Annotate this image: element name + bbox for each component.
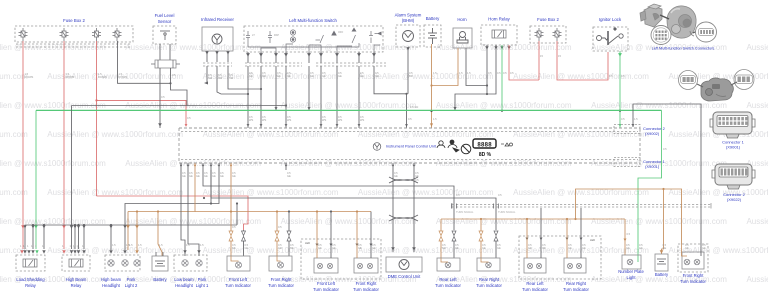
svg-text:0.5: 0.5 bbox=[456, 193, 460, 197]
low beam headlight and park light 1 bbox=[174, 255, 207, 271]
svg-text:Front Right: Front Right bbox=[271, 277, 293, 282]
svg-text:SW: SW bbox=[229, 76, 234, 80]
svg-text:GE: GE bbox=[528, 246, 532, 250]
wire park light 2 feeds (tan) bbox=[127, 212, 129, 251]
svg-text:GE: GE bbox=[189, 174, 193, 178]
svg-text:Battery: Battery bbox=[426, 16, 440, 21]
DME control unit bbox=[386, 257, 422, 272]
svg-text:GE: GE bbox=[455, 246, 459, 250]
svg-text:1.5: 1.5 bbox=[459, 71, 463, 75]
wire rear right turn ground bullet bbox=[494, 231, 498, 241]
wire IPC pin junction on park bus bbox=[210, 170, 212, 204]
rear LED turn indicators box bbox=[519, 236, 601, 279]
instrument panel control unit connector rows bbox=[181, 131, 638, 133]
svg-text:DME Control Unit: DME Control Unit bbox=[388, 274, 421, 279]
wire horn relay 86 (gray) bbox=[486, 45, 488, 94]
svg-text:8888: 8888 bbox=[477, 142, 492, 149]
icon turn indicators bbox=[437, 140, 459, 152]
svg-text:Turn Indicator: Turn Indicator bbox=[435, 283, 461, 288]
svg-text:GE: GE bbox=[482, 246, 486, 250]
wire battery to IPC (tan) bbox=[431, 44, 433, 128]
svg-text:1.5: 1.5 bbox=[433, 71, 437, 75]
svg-text:Left Multi-function Switch Con: Left Multi-function Switch Connectors bbox=[652, 47, 715, 51]
wire park light 1 feed bbox=[188, 170, 199, 256]
wire green trunk right branch to number plate light bbox=[638, 110, 662, 262]
svg-text:Turn Indicator: Turn Indicator bbox=[563, 287, 589, 292]
svg-text:GE: GE bbox=[626, 246, 630, 250]
svg-text:GE: GE bbox=[568, 246, 572, 250]
wire front left turn feed (tan) bbox=[230, 170, 232, 231]
connector 1 (X9001) illustration bbox=[710, 112, 755, 138]
svg-text:Park: Park bbox=[127, 277, 137, 282]
svg-text:1.5: 1.5 bbox=[634, 117, 638, 121]
svg-text:WS: WS bbox=[338, 118, 342, 122]
svg-text:GE: GE bbox=[249, 74, 253, 78]
svg-text:GE: GE bbox=[182, 174, 186, 178]
wire horn relay 30 to fuse (red) bbox=[509, 45, 539, 80]
wire horn relay 87 (green) bbox=[501, 45, 503, 110]
body connector dashed line bbox=[452, 204, 711, 206]
svg-text:Ignitor Lock: Ignitor Lock bbox=[599, 17, 622, 22]
svg-text:GE: GE bbox=[372, 246, 376, 250]
wire fuel level sensor ground bbox=[171, 68, 188, 106]
svg-text:1.5: 1.5 bbox=[186, 243, 190, 247]
wire ignition lock output (green) bbox=[619, 51, 621, 128]
svg-text:0.5: 0.5 bbox=[627, 232, 631, 236]
svg-text:GE: GE bbox=[332, 246, 336, 250]
wire fuse2 to high beam relay (red) bbox=[63, 41, 65, 249]
wire infrared receiver pin 2 bbox=[217, 66, 248, 94]
wire IPC connector 2 gray to right trunk bbox=[633, 104, 701, 244]
icon slash circle bbox=[461, 144, 471, 154]
wire IPC to rear left turn (gray) bbox=[203, 170, 454, 230]
connector 2 (X9002) of IPC bbox=[614, 125, 640, 134]
wire rear left turn ground bullet bbox=[452, 231, 456, 241]
svg-text:WS: WS bbox=[322, 118, 326, 122]
svg-text:GE: GE bbox=[290, 246, 294, 250]
svg-text:(X9022): (X9022) bbox=[727, 197, 742, 202]
svg-text:1.5: 1.5 bbox=[129, 243, 133, 247]
round connector view A bbox=[651, 26, 671, 45]
svg-text:BR: BR bbox=[409, 74, 413, 78]
svg-text:PAP: PAP bbox=[274, 33, 279, 37]
svg-text:GE: GE bbox=[232, 174, 236, 178]
rear LED right module bbox=[564, 258, 586, 273]
svg-text:Turn Indicator: Turn Indicator bbox=[268, 283, 294, 288]
svg-text:GE: GE bbox=[639, 246, 643, 250]
svg-text:Horn: Horn bbox=[457, 17, 467, 22]
green trunk wire bbox=[36, 109, 662, 111]
wire branch load shedding relay pin 4 bbox=[43, 225, 45, 249]
svg-text:0.5: 0.5 bbox=[503, 71, 507, 75]
svg-text:1.5: 1.5 bbox=[433, 117, 437, 121]
wire IPC to park light bus (gray) bbox=[125, 170, 219, 250]
wire fuel level sensor signal to IPC bbox=[159, 68, 161, 128]
svg-text:0.5: 0.5 bbox=[621, 117, 625, 121]
svg-text:Turn Indicator: Turn Indicator bbox=[522, 287, 548, 292]
left multi-function switch pins bbox=[246, 53, 250, 57]
svg-text:Left Multi-function Switch: Left Multi-function Switch bbox=[289, 18, 337, 23]
svg-text:Infrared Receiver: Infrared Receiver bbox=[201, 17, 235, 22]
svg-text:TURN SIGNAL: TURN SIGNAL bbox=[456, 210, 474, 214]
instrument panel control unit box bbox=[179, 128, 640, 163]
number plate light bbox=[622, 255, 641, 269]
wire fuse to horn relay (red) bbox=[538, 41, 540, 80]
svg-text:Front Right: Front Right bbox=[683, 273, 705, 278]
wire horn relay 85 (gray) bbox=[455, 45, 496, 110]
wires front LED turn feeds junctions bbox=[316, 210, 318, 212]
svg-text:RO/WS: RO/WS bbox=[119, 75, 128, 79]
wire to battery 3 (tan) bbox=[662, 189, 664, 254]
svg-text:LT: LT bbox=[252, 33, 255, 37]
wire to number plate light (tan) bbox=[624, 219, 626, 255]
svg-text:0.5: 0.5 bbox=[498, 193, 502, 197]
svg-text:0.5: 0.5 bbox=[497, 71, 501, 75]
svg-text:RO/WS: RO/WS bbox=[98, 75, 107, 79]
svg-text:0.5: 0.5 bbox=[621, 74, 625, 78]
left multi-function switch internal bus bbox=[248, 43, 359, 47]
wires IPC to DME control unit (twisted pair) bbox=[392, 170, 394, 252]
fuse box 2 (left) bbox=[15, 26, 133, 42]
twisted pair symbol lower bbox=[389, 215, 418, 221]
svg-text:GE: GE bbox=[204, 174, 208, 178]
orange trunk rear (tan) bbox=[441, 218, 625, 220]
svg-text:8D %: 8D % bbox=[479, 152, 492, 158]
instrument panel control unit logo bbox=[373, 143, 381, 151]
svg-text:GE: GE bbox=[310, 74, 314, 78]
ignition lock connectors illustration bbox=[679, 70, 755, 102]
svg-text:GE: GE bbox=[220, 174, 224, 178]
svg-text:0.5: 0.5 bbox=[488, 71, 492, 75]
svg-text:0.5 GN: 0.5 GN bbox=[410, 105, 418, 109]
high beam headlight and park light 2 bbox=[105, 255, 140, 271]
svg-text:LED: LED bbox=[590, 238, 595, 242]
wire IPC to rear right turn (gray) bbox=[211, 170, 496, 230]
svg-text:Headlight: Headlight bbox=[102, 283, 121, 288]
svg-text:Alarm System: Alarm System bbox=[395, 13, 422, 18]
svg-text:GE: GE bbox=[318, 246, 322, 250]
svg-text:Front Right: Front Right bbox=[356, 281, 378, 286]
svg-text:Park: Park bbox=[198, 277, 208, 282]
twisted pair symbol upper bbox=[389, 177, 418, 183]
svg-text:GE: GE bbox=[702, 246, 706, 250]
wire fuse4 to fuel level sensor connector (gray) bbox=[118, 41, 171, 83]
svg-text:GE: GE bbox=[277, 74, 281, 78]
svg-text:OFF: OFF bbox=[338, 30, 344, 34]
svg-text:SW: SW bbox=[208, 76, 213, 80]
svg-text:RO/WS: RO/WS bbox=[66, 75, 75, 79]
svg-text:Rear Left: Rear Left bbox=[439, 277, 457, 282]
svg-text:GE: GE bbox=[322, 74, 326, 78]
wire branch high beam relay 3 bbox=[83, 225, 85, 249]
svg-text:GE: GE bbox=[394, 174, 398, 178]
svg-text:0.5: 0.5 bbox=[187, 116, 191, 120]
icon LCD display bbox=[473, 139, 496, 148]
svg-text:0.5: 0.5 bbox=[161, 95, 165, 99]
battery 2 bbox=[152, 256, 168, 271]
wire branch high beam relay 2 bbox=[78, 225, 80, 249]
wire fuel level sensor pin 2 bbox=[169, 44, 171, 60]
svg-text:0.5: 0.5 bbox=[408, 117, 412, 121]
svg-text:Battery: Battery bbox=[153, 277, 167, 282]
svg-text:Fuse Box 2: Fuse Box 2 bbox=[63, 18, 85, 23]
svg-text:GE: GE bbox=[278, 246, 282, 250]
svg-text:GE: GE bbox=[542, 246, 546, 250]
svg-text:1.5: 1.5 bbox=[112, 243, 116, 247]
svg-text:Turn Indicator: Turn Indicator bbox=[476, 283, 502, 288]
svg-text:0.5: 0.5 bbox=[609, 74, 613, 78]
wire horn feed (tan) bbox=[432, 48, 459, 86]
infrared receiver pins bbox=[205, 51, 208, 54]
svg-text:GE: GE bbox=[196, 174, 200, 178]
svg-text:GE: GE bbox=[232, 246, 236, 250]
svg-text:Number Plate: Number Plate bbox=[618, 269, 644, 274]
rear right turn indicator bbox=[477, 258, 500, 271]
svg-text:0.5: 0.5 bbox=[232, 225, 236, 229]
svg-text:GE: GE bbox=[442, 246, 446, 250]
wire red branch to instrument panel control unit bbox=[97, 100, 187, 125]
wire front right turn feed (tan) bbox=[276, 212, 278, 232]
svg-text:WS: WS bbox=[249, 118, 253, 122]
svg-text:Headlight: Headlight bbox=[175, 283, 194, 288]
wire fuse3 (red) with branch bbox=[96, 41, 98, 196]
wire branch load shedding relay pin 3 bbox=[32, 225, 34, 249]
svg-text:GE: GE bbox=[685, 246, 689, 250]
svg-text:Battery: Battery bbox=[655, 272, 669, 277]
svg-text:Load Shedding: Load Shedding bbox=[16, 277, 45, 282]
orange riser to rear trunk bbox=[576, 189, 682, 244]
svg-text:TURN SIGNAL: TURN SIGNAL bbox=[498, 210, 516, 214]
wire rear left turn feed (tan) bbox=[440, 219, 442, 231]
round connector view B bbox=[696, 22, 717, 42]
svg-text:Horn Relay: Horn Relay bbox=[488, 17, 510, 22]
svg-text:Light 2: Light 2 bbox=[125, 283, 138, 288]
svg-text:AussieAlien @ www.s1000rforum.: AussieAlien @ www.s1000rforum.com Aussie… bbox=[0, 72, 768, 81]
svg-text:(X9002): (X9002) bbox=[645, 131, 660, 136]
front LED left module bbox=[314, 258, 338, 273]
svg-text:Relay: Relay bbox=[25, 283, 37, 288]
wire fuse1 to load shedding relay (red) bbox=[22, 41, 24, 249]
wire infrared receiver pin 1 bbox=[206, 66, 208, 83]
riser between buses bbox=[236, 204, 238, 226]
battery 3 bbox=[655, 254, 668, 271]
front left turn indicator bbox=[227, 256, 250, 271]
wire front left turn ground bbox=[243, 230, 245, 231]
wire branch high beam relay bbox=[74, 225, 76, 249]
svg-text:Rear Right: Rear Right bbox=[479, 277, 500, 282]
svg-text:1.5: 1.5 bbox=[138, 243, 142, 247]
svg-text:GE: GE bbox=[582, 246, 586, 250]
svg-text:1.5: 1.5 bbox=[200, 243, 204, 247]
svg-text:GE: GE bbox=[338, 74, 342, 78]
front LED right module bbox=[354, 258, 378, 273]
svg-text:Fuse Box 2: Fuse Box 2 bbox=[537, 17, 559, 22]
wire infrared receiver pin 3 bbox=[228, 66, 261, 89]
svg-text:Light 1: Light 1 bbox=[196, 283, 209, 288]
wire battery 2 feed (tan) bbox=[158, 212, 162, 257]
wire red fuse3 to front left turn indicator bbox=[97, 196, 249, 230]
wire front right turn ground bbox=[288, 212, 290, 232]
svg-text:Front Left: Front Left bbox=[229, 277, 248, 282]
svg-text:Turn Indicator: Turn Indicator bbox=[353, 287, 379, 292]
svg-text:AussieAlien @ www.s1000rforum.: AussieAlien @ www.s1000rforum.com Aussie… bbox=[0, 246, 768, 255]
wire LMFS pin to alarm junction bbox=[374, 66, 407, 94]
wires from IPC bottom bbox=[180, 163, 182, 170]
svg-text:WS: WS bbox=[287, 118, 291, 122]
wire alarm system to IPC bbox=[406, 47, 409, 50]
front right turn indicator bbox=[269, 256, 292, 271]
svg-text:GE: GE bbox=[287, 174, 291, 178]
svg-text:Relay: Relay bbox=[71, 283, 83, 288]
svg-text:WS: WS bbox=[262, 118, 266, 122]
svg-text:GE: GE bbox=[375, 74, 379, 78]
svg-text:Turn Indicator: Turn Indicator bbox=[225, 283, 251, 288]
wire gray trunk to high beam relay bbox=[71, 106, 73, 250]
svg-text:Light: Light bbox=[626, 275, 636, 280]
svg-text:LED: LED bbox=[305, 241, 310, 245]
high beam relay bbox=[62, 255, 90, 271]
svg-text:GE: GE bbox=[497, 246, 501, 250]
svg-text:RO/WS: RO/WS bbox=[25, 75, 34, 79]
horn relay pins bbox=[485, 46, 488, 49]
wire relay bus (gray) bbox=[25, 225, 237, 249]
fuel level sensor connector bbox=[155, 60, 176, 68]
svg-text:Turn Indicator: Turn Indicator bbox=[313, 287, 339, 292]
svg-text:Turn Indicator: Turn Indicator bbox=[680, 279, 706, 284]
rear LED left module bbox=[524, 258, 546, 273]
connector 2 (X9022) illustration bbox=[712, 164, 755, 189]
wire horn ground (gray) bbox=[466, 48, 487, 86]
front LED turn indicators box bbox=[301, 239, 381, 279]
svg-text:0.5: 0.5 bbox=[278, 225, 282, 229]
wire low beam headlight feed bbox=[181, 170, 185, 256]
svg-text:1.5: 1.5 bbox=[467, 71, 471, 75]
svg-text:GE: GE bbox=[212, 174, 216, 178]
rear left turn indicator bbox=[437, 258, 460, 271]
svg-text:(BHM): (BHM) bbox=[402, 18, 415, 23]
svg-text:0.5: 0.5 bbox=[510, 71, 514, 75]
svg-text:SW: SW bbox=[218, 76, 223, 80]
svg-text:1.5: 1.5 bbox=[159, 243, 163, 247]
svg-text:0.5: 0.5 bbox=[663, 147, 667, 151]
svg-text:Sensor: Sensor bbox=[158, 19, 172, 24]
wire fuse to ignition lock (red) bbox=[557, 41, 608, 80]
svg-text:Fuel Level: Fuel Level bbox=[155, 13, 175, 18]
load shedding relay bbox=[16, 255, 45, 271]
connector 1 (X9001) of IPC bbox=[614, 158, 640, 167]
svg-text:(X9001): (X9001) bbox=[726, 145, 741, 150]
icon small indicators bbox=[501, 143, 513, 146]
svg-text:GE: GE bbox=[245, 246, 249, 250]
orange trunk front (tan) bbox=[128, 170, 195, 212]
wire fuel level sensor pin 1 bbox=[159, 44, 161, 60]
left multi-function switch connectors illustration bbox=[640, 4, 699, 38]
svg-text:GE: GE bbox=[358, 246, 362, 250]
wire rear right turn feed (tan) bbox=[480, 219, 482, 231]
wire branch high beam headlight bbox=[110, 225, 112, 250]
svg-text:GE: GE bbox=[287, 74, 291, 78]
svg-text:Rear Left: Rear Left bbox=[526, 281, 544, 286]
svg-text:GE: GE bbox=[360, 74, 364, 78]
svg-text:(X9001): (X9001) bbox=[645, 164, 660, 169]
front right turn indicator (LED) bbox=[678, 244, 708, 272]
svg-text:GE: GE bbox=[663, 246, 667, 250]
svg-text:Instrument Panel Control Unit: Instrument Panel Control Unit bbox=[386, 145, 437, 149]
svg-text:GE: GE bbox=[262, 74, 266, 78]
gray trunk wire bbox=[72, 105, 287, 107]
svg-text:Rear Right: Rear Right bbox=[566, 281, 587, 286]
wires from left multi-function switch down bbox=[275, 66, 277, 110]
svg-text:Front Left: Front Left bbox=[317, 281, 336, 286]
svg-text:High Beam: High Beam bbox=[66, 277, 87, 282]
svg-text:Low beam: Low beam bbox=[174, 277, 194, 282]
wire green trunk left branch to load shedding relay bbox=[35, 110, 37, 249]
svg-text:0.5: 0.5 bbox=[172, 73, 176, 77]
svg-text:WS: WS bbox=[360, 118, 364, 122]
svg-text:High beam: High beam bbox=[101, 277, 122, 282]
